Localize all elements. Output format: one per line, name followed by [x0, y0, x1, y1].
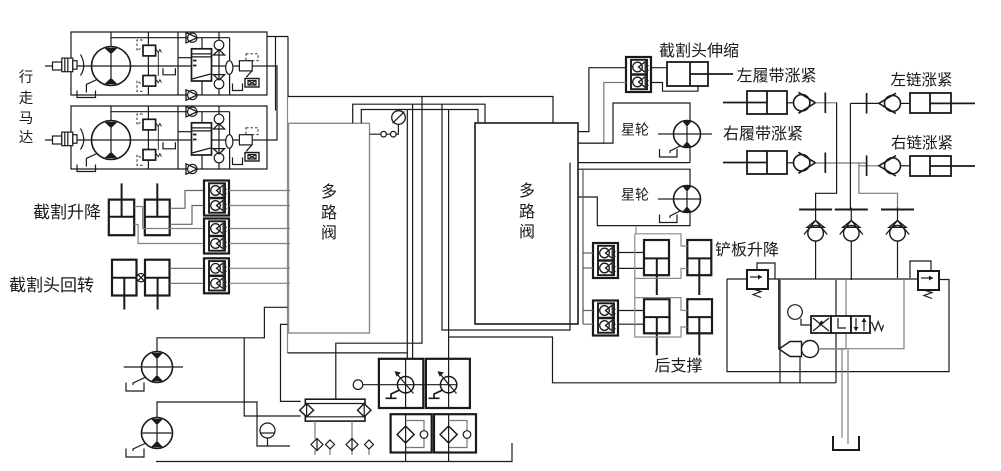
- outer box A: [727, 279, 949, 372]
- svg-text:星轮: 星轮: [621, 188, 649, 204]
- cylinder rot-2: [145, 260, 170, 310]
- svg-text:星轮: 星轮: [621, 123, 649, 139]
- star wheel box 2: [578, 169, 701, 225]
- wire shovel gray feed: [635, 226, 688, 279]
- coupling check 2: [835, 208, 868, 242]
- wire B5 left: [583, 311, 593, 325]
- wire B4 left: [583, 253, 593, 268]
- gauge small: [353, 380, 440, 390]
- svg-text:右链涨紧: 右链涨紧: [891, 134, 953, 152]
- svg-text:右履带涨紧: 右履带涨紧: [723, 125, 803, 143]
- filter diamonds below manifold: [311, 421, 374, 455]
- svg-text:走: 走: [19, 90, 34, 107]
- multi-way valve right box: [475, 123, 578, 324]
- cylinder lift-2: [145, 183, 170, 235]
- coupling check 3: [881, 208, 914, 242]
- wire nested line 2: [353, 104, 485, 123]
- wire outer top line to right valve: [288, 97, 553, 124]
- long bottom line: [449, 337, 836, 383]
- filter box 1: [391, 414, 432, 462]
- svg-text:阀: 阀: [321, 224, 337, 242]
- cylinder telescope: [667, 62, 733, 86]
- svg-text:多: 多: [519, 182, 535, 200]
- pump P2: [126, 418, 173, 458]
- svg-text:达: 达: [19, 130, 34, 147]
- balance valve block B2: [204, 219, 229, 254]
- svg-text:左履带涨紧: 左履带涨紧: [736, 67, 816, 85]
- cylinder support big: [644, 299, 670, 355]
- variable pump box 1: [379, 359, 423, 408]
- multi-way valve left box: [289, 123, 370, 333]
- wire unit1-unit2 top link: [267, 37, 288, 111]
- svg-text:铲板升降: 铲板升降: [715, 241, 779, 259]
- wire lift cyl1 bottom to block2: [134, 207, 204, 229]
- svg-text:左链涨紧: 左链涨紧: [890, 71, 952, 89]
- balance valve block B1: [204, 181, 229, 216]
- cooler manifold: [300, 399, 371, 421]
- svg-text:阀: 阀: [519, 223, 535, 241]
- svg-text:多: 多: [321, 183, 337, 201]
- wire B4 to cylinders: [618, 253, 644, 269]
- shuttle pump: [779, 341, 819, 383]
- pump P1: [124, 352, 183, 392]
- svg-text:马: 马: [19, 110, 34, 127]
- inner gray box C: [819, 280, 904, 349]
- variable pump box 2: [426, 359, 470, 408]
- wire pump1 up and across: [157, 307, 407, 353]
- wire top feed down to shuttle: [778, 280, 780, 350]
- balance valve block B5: [593, 301, 618, 336]
- wire bundle vertical d: [442, 104, 570, 330]
- filter box 2: [434, 414, 476, 462]
- wire left track down: [816, 103, 837, 210]
- svg-text:后支撑: 后支撑: [654, 357, 702, 375]
- wire lift cyl1 to block1: [170, 206, 204, 225]
- cylinder support small: [687, 299, 712, 355]
- wire unit1-unit2 center link: [267, 66, 277, 140]
- wire rot cyl1 to block3: [170, 282, 205, 284]
- wire checks down to manifold: [816, 241, 898, 280]
- cylinder lift-1: [109, 183, 134, 235]
- wire right track down: [859, 163, 898, 210]
- wire B5 to cylinders: [618, 311, 644, 325]
- wire down to tank: [842, 349, 848, 444]
- wire B6 lower port down: [578, 83, 626, 144]
- svg-text:截割头回转: 截割头回转: [9, 276, 94, 295]
- solenoid directional valve: [811, 316, 884, 333]
- cylinder rot-1: [112, 260, 137, 310]
- test points: [369, 124, 398, 137]
- svg-text:路: 路: [321, 204, 337, 222]
- pressure gauge on left valve: [392, 111, 406, 125]
- check valve right chain: [859, 155, 910, 176]
- balance valve block B6: [626, 57, 651, 92]
- balance valve block B3: [204, 258, 229, 293]
- outer enclosure rect: [336, 97, 422, 400]
- wire rot cyl2 to block3: [170, 267, 205, 269]
- breather gauge: [260, 423, 275, 446]
- check valve left chain: [850, 93, 910, 114]
- star wheel box 1: [578, 103, 712, 163]
- wire gray jog left valve bottom: [281, 324, 301, 401]
- wire vertical feed column: [582, 169, 584, 324]
- wire lift cyl2 bottom to block2: [134, 225, 204, 244]
- wire B1 to valve: [229, 191, 290, 206]
- wire left gray riser: [287, 96, 289, 353]
- relief valve left: [747, 263, 775, 298]
- orifice cross: [137, 274, 146, 282]
- wire left chain down: [849, 103, 851, 209]
- relief valve right: [910, 261, 939, 299]
- travel motor unit 2: [45, 106, 267, 174]
- cylinder shovel small: [687, 240, 711, 295]
- coupling check 1: [799, 208, 832, 242]
- wire bundle vertical c: [448, 110, 450, 377]
- pilot circle: [788, 305, 811, 325]
- wire B2 to valve: [229, 229, 290, 244]
- wire B3 to valve: [229, 268, 290, 283]
- wire bundle vertical b: [412, 104, 414, 358]
- wire support gray feed: [635, 278, 688, 337]
- check valve left track: [787, 92, 837, 113]
- travel motor unit 1: [45, 32, 267, 100]
- cylinder right chain: [910, 156, 975, 176]
- cylinder shovel big: [644, 240, 669, 295]
- cylinder right track: [723, 151, 787, 174]
- bottom return line: [156, 443, 512, 462]
- tank right: [833, 436, 859, 450]
- cylinder left chain: [910, 93, 975, 113]
- wire B6 left ports down: [578, 68, 626, 132]
- svg-text:截割头伸缩: 截割头伸缩: [659, 42, 739, 60]
- cylinder left track: [723, 91, 787, 114]
- wire branch to manifold: [244, 338, 301, 416]
- inner box B sides: [780, 280, 836, 383]
- check valve right track: [787, 152, 867, 173]
- svg-text:截割升降: 截割升降: [33, 203, 101, 222]
- wire shuttle to box C: [819, 348, 847, 350]
- svg-text:路: 路: [519, 203, 535, 221]
- wire lift cyl2 to block1: [170, 191, 204, 209]
- balance valve block B4: [593, 243, 618, 278]
- wire pump2 up: [157, 402, 290, 446]
- wire bundle vertical a: [406, 110, 408, 359]
- svg-text:行: 行: [19, 69, 34, 86]
- wire B6 to cylinder: [651, 68, 698, 92]
- wire nested line 3: [361, 110, 478, 124]
